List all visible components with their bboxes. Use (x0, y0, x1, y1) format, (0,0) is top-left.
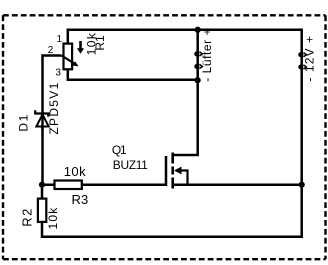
wire top rail, right rail, bottom rail loop (42, 30, 302, 237)
svg-text:ZPD5V1: ZPD5V1 (47, 81, 61, 134)
svg-text:- 12V +: - 12V + (302, 35, 316, 82)
resistor R2 (38, 199, 46, 222)
svg-text:Q1: Q1 (112, 143, 127, 157)
svg-text:R3: R3 (72, 192, 89, 207)
wire Luefter line and drain (173, 30, 198, 155)
svg-text:10k: 10k (64, 164, 86, 179)
wire R3 to gate (42, 156, 166, 185)
potentiometer R1 (62, 44, 79, 70)
svg-text:R1: R1 (93, 35, 107, 51)
junction dot source / right rail (299, 182, 305, 188)
connector Luefter pin - (194, 64, 202, 69)
connector Luefter pin + (194, 51, 202, 56)
svg-text:1: 1 (57, 34, 63, 45)
junction dot top rail / Luefter (195, 27, 201, 33)
svg-text:- Lüfter +: - Lüfter + (200, 28, 214, 82)
mosfet Q1 channel segments (171, 153, 174, 189)
wire pot pin3 to Luefter node (68, 70, 198, 80)
connector -12V pin + (298, 52, 306, 57)
zener diode D1 (35, 110, 49, 130)
svg-text:D1: D1 (17, 113, 31, 132)
connector -12V pin - (298, 64, 306, 69)
R1 adjust arrow (77, 41, 84, 54)
wire mosfet source to right rail (173, 183, 302, 186)
wire pot wiper pin2 down to zener and node (43, 56, 62, 185)
junction node at zener/R3/R2 (39, 182, 45, 188)
junction dot pot pin3 / Luefter (194, 77, 200, 83)
svg-text:BUZ11: BUZ11 (113, 158, 148, 172)
mosfet Q1 body arrow (174, 167, 188, 185)
svg-text:3: 3 (55, 67, 61, 78)
svg-text:R2: R2 (20, 207, 35, 227)
svg-text:2: 2 (48, 45, 54, 56)
wire R2 stub (41, 185, 44, 198)
svg-text:10k: 10k (46, 207, 60, 230)
resistor R3 (55, 181, 82, 190)
